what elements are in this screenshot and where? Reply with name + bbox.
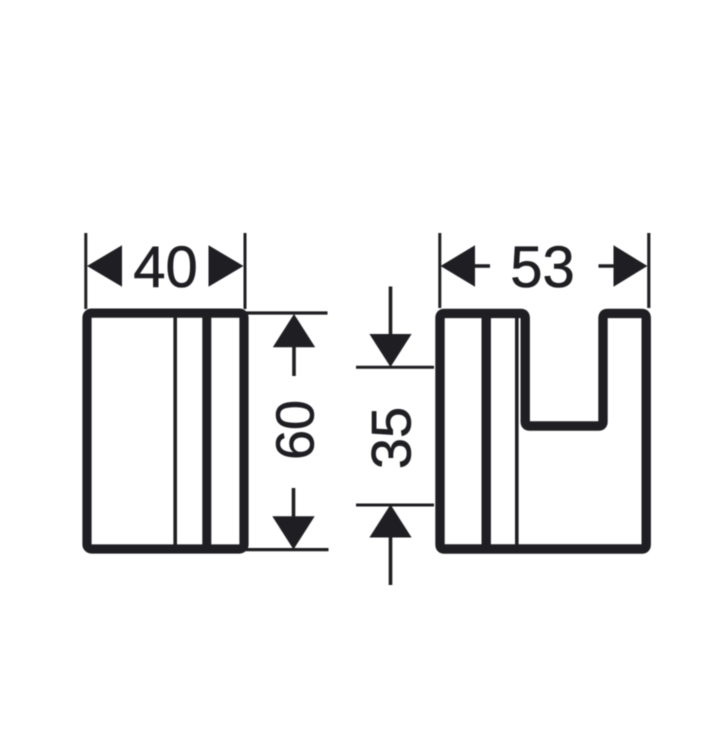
dim 60 top arrow (273, 314, 315, 347)
dim 53 right extension line (647, 233, 650, 308)
left view outline (87, 313, 244, 549)
dim 40 left extension line (84, 233, 87, 309)
right view thick edge line (482, 312, 491, 549)
dim 60 top extension line (244, 311, 328, 314)
svg-text:40: 40 (133, 235, 198, 300)
dim 53 left arrow (441, 245, 476, 286)
right view outline with hook notch (440, 313, 646, 549)
dim 40 left arrow (87, 245, 122, 286)
dim 35 bottom extension line (356, 504, 434, 507)
dim 35 top extension line (356, 366, 434, 369)
dim 35 bottom arrow (369, 505, 411, 538)
dim 60 top dimension line segment (292, 346, 296, 376)
dim 40 right arrow (209, 245, 244, 286)
dim 53 left extension line (438, 233, 441, 308)
dim 60 bottom dimension line segment (292, 488, 296, 518)
dim 40 label (133, 235, 198, 300)
dim 35 label (360, 407, 423, 469)
right view thin edge line (515, 317, 519, 548)
dim 60 bottom arrow (272, 516, 314, 549)
dim 53 right dimension line segment (599, 264, 616, 268)
svg-text:53: 53 (510, 235, 575, 300)
dim 35 top dimension line segment (389, 287, 393, 335)
dim 35 top arrow (369, 334, 411, 367)
dim 53 right arrow (614, 245, 648, 286)
left view thick edge line (202, 312, 211, 551)
dim 53 label (510, 235, 575, 300)
dim 40 right extension line (244, 233, 247, 309)
dim 60 bottom extension line (244, 548, 329, 551)
left view thin edge line (173, 312, 177, 551)
dim 60 label (266, 400, 326, 460)
svg-text:35: 35 (360, 407, 423, 469)
dim 35 bottom dimension line segment (389, 537, 393, 585)
dim 53 left dimension line segment (474, 264, 490, 268)
svg-text:60: 60 (266, 400, 326, 460)
